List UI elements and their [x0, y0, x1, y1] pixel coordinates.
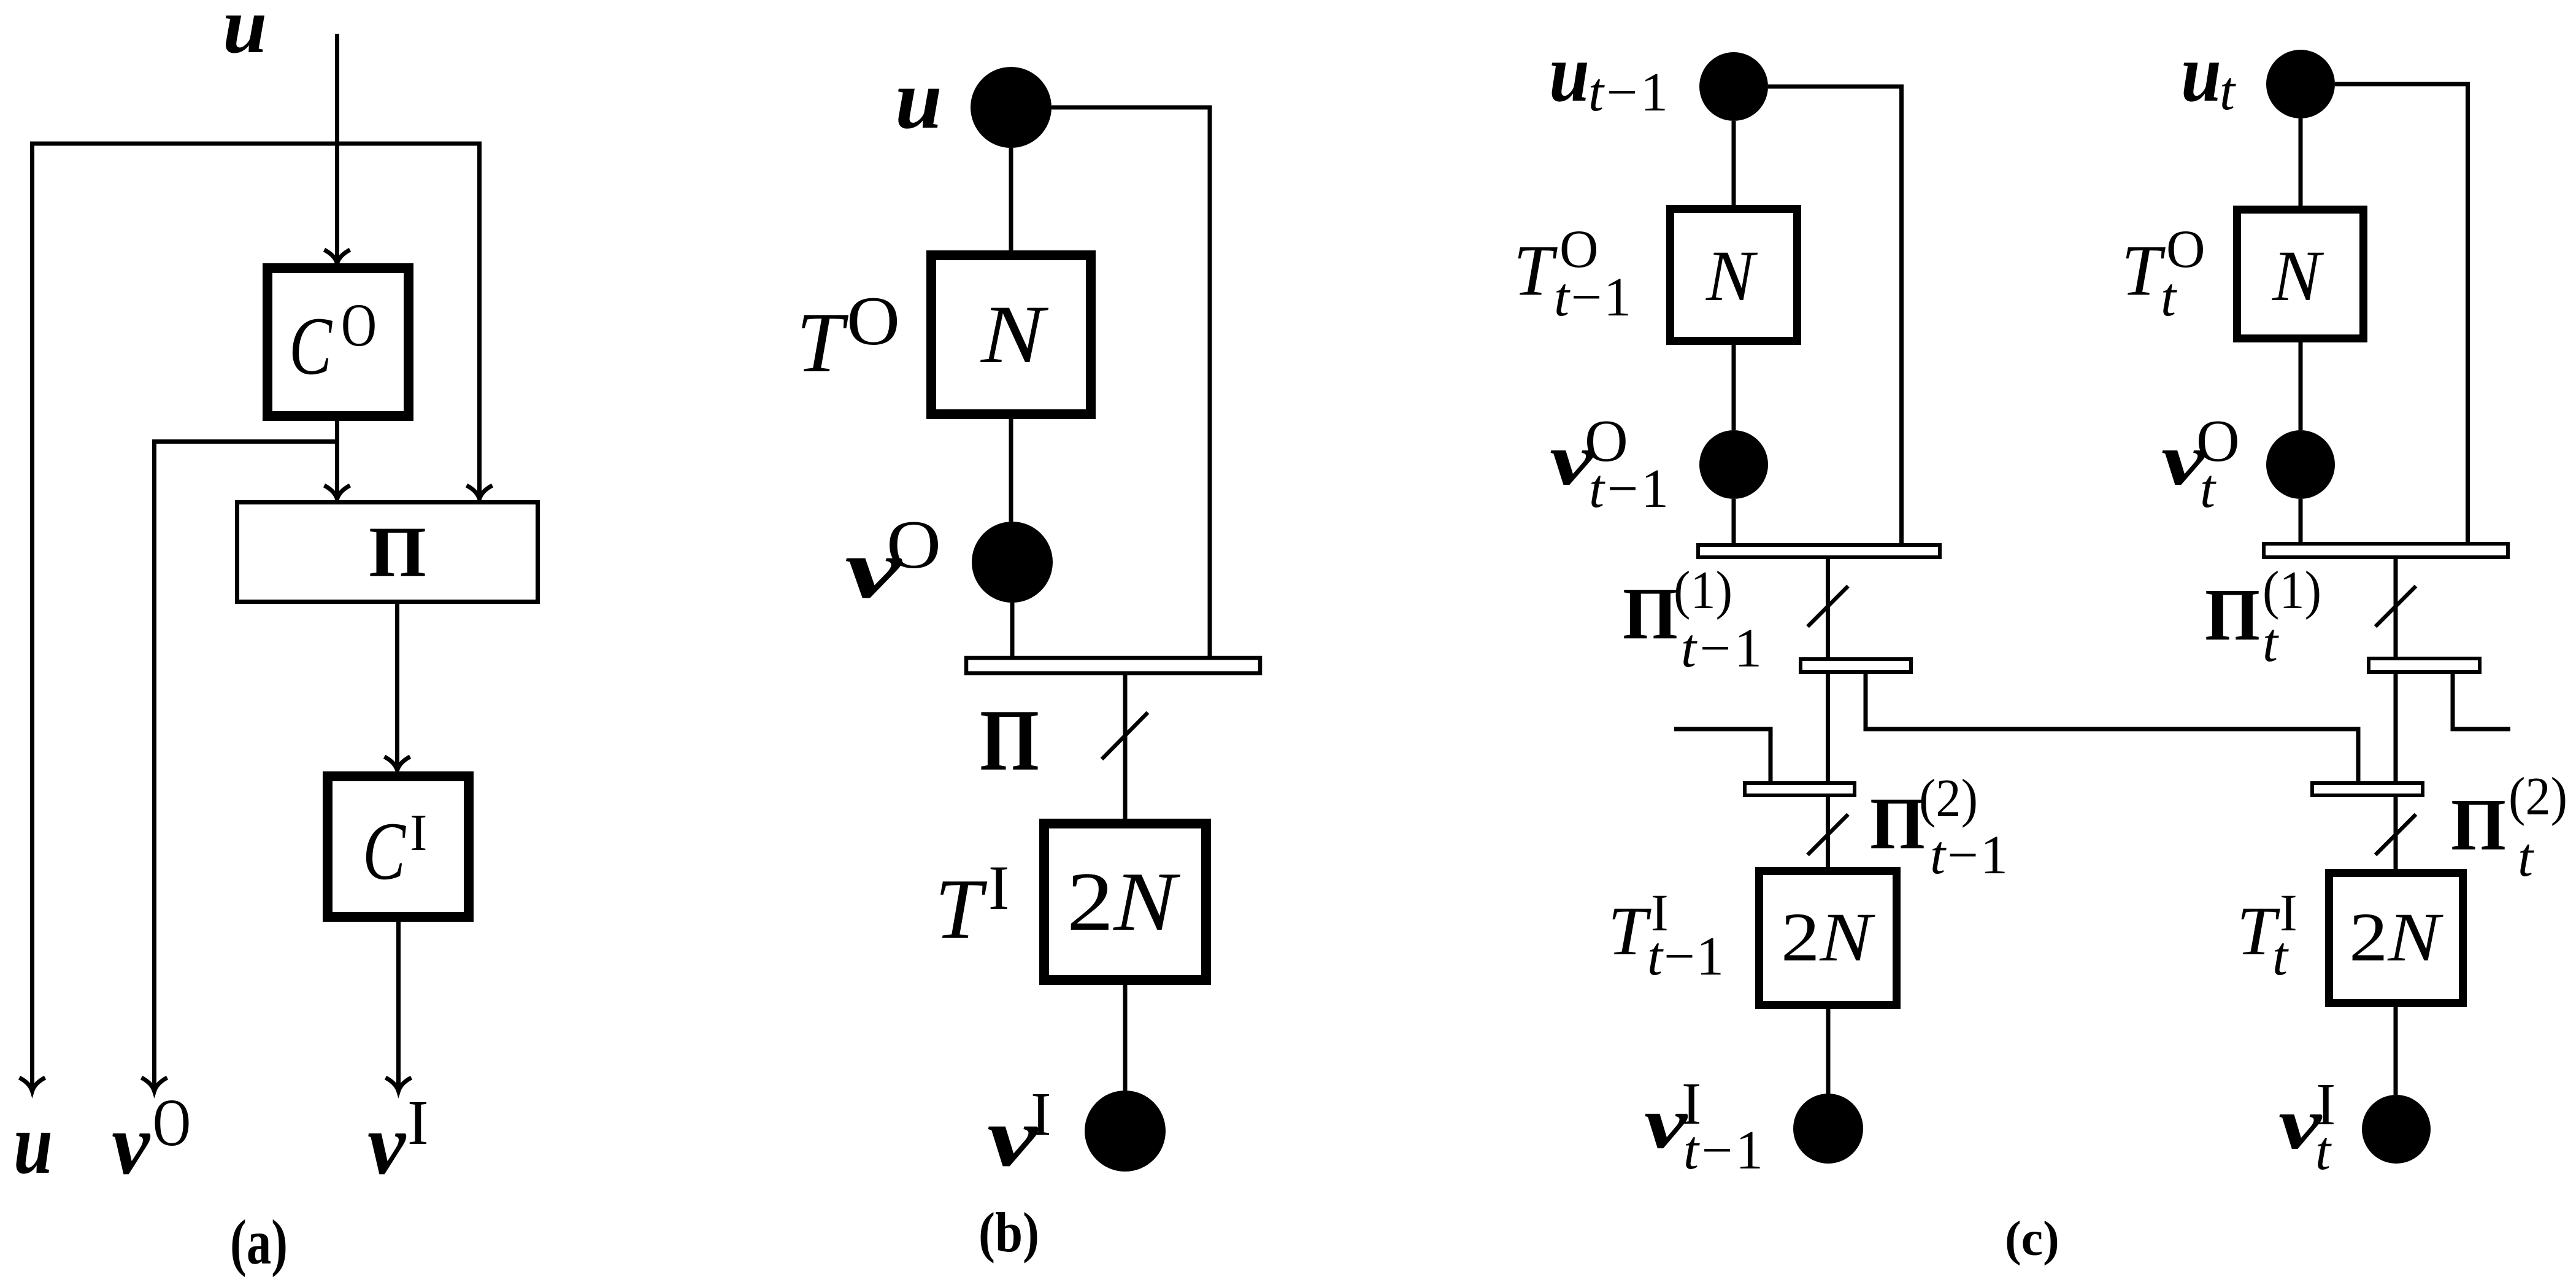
merge bar (c left)	[1745, 783, 1855, 795]
wire vO branch left then down	[155, 442, 337, 1091]
wire split-out to next stage (c left to right)	[1866, 674, 2358, 783]
arrowhead right branch into P	[467, 485, 493, 499]
wire split bar down to merge bar (c right)	[2394, 674, 2398, 783]
svg-text:Π: Π	[1623, 573, 1678, 655]
svg-text:t−1: t−1	[1681, 618, 1762, 679]
arrowhead CO out into P	[325, 485, 350, 499]
interleaver box P (a)	[237, 503, 538, 602]
svg-text:N: N	[980, 289, 1049, 380]
bundle slash 2 (c right)	[2375, 814, 2416, 855]
svg-text:T: T	[2121, 230, 2166, 311]
permutation bar P (b)	[966, 658, 1260, 673]
svg-text:t−1: t−1	[1589, 458, 1669, 519]
svg-text:t: t	[2200, 458, 2217, 519]
wire u_t bypass to P1 bar (c right)	[2335, 84, 2468, 542]
node u_t	[2266, 50, 2335, 118]
wire u_{t-1} to TO	[1732, 121, 1736, 205]
wire TO_{t-1} to vO_{t-1}	[1732, 345, 1736, 430]
svg-text:t: t	[2263, 612, 2279, 673]
wire TI_{t-1} to vI_{t-1}	[1826, 1009, 1831, 1094]
factor box TI_{t-1}	[1759, 871, 1897, 1005]
wire P bar to TI (b)	[1123, 675, 1128, 819]
wire stub from previous stage into merge bar (c left)	[1674, 729, 1771, 783]
wire vO_{t-1} to P1 bar	[1732, 499, 1736, 543]
svg-text:(2): (2)	[2509, 767, 2567, 827]
svg-text:C: C	[289, 301, 333, 392]
arrowhead u output	[20, 1078, 45, 1091]
svg-text:2N: 2N	[1067, 855, 1180, 948]
svg-text:t−1: t−1	[1647, 926, 1724, 987]
svg-text:(c): (c)	[2005, 1212, 2059, 1266]
svg-text:T: T	[1608, 893, 1651, 970]
node vO (b)	[972, 522, 1053, 603]
node u_{t-1}	[1699, 52, 1768, 121]
svg-text:t: t	[2161, 267, 2177, 328]
svg-text:t−1: t−1	[1683, 1120, 1763, 1181]
permutation bar P1_t	[2264, 544, 2508, 557]
svg-text:v: v	[367, 1095, 407, 1192]
svg-text:u: u	[1549, 28, 1590, 119]
factor box TI (b)	[1044, 824, 1206, 980]
node vO_t	[2266, 430, 2335, 499]
merge bar (c right)	[2312, 783, 2423, 795]
split bar (c left)	[1801, 659, 1911, 672]
wire merge bar to TI_{t-1}	[1826, 797, 1830, 867]
arrowhead vI output	[386, 1078, 412, 1091]
node u (b)	[971, 67, 1052, 148]
svg-text:t: t	[2272, 926, 2289, 987]
svg-text:t: t	[2220, 61, 2236, 122]
wire P1 bar to split bar (c left)	[1826, 559, 1830, 657]
svg-text:2N: 2N	[2349, 899, 2443, 976]
svg-text:T: T	[1513, 230, 1558, 311]
wire TO_t to vO_t	[2299, 342, 2303, 430]
svg-text:Π: Π	[980, 692, 1039, 789]
svg-text:v: v	[112, 1095, 151, 1192]
wire split-out stub to next stage (c right)	[2453, 674, 2510, 729]
split bar (c right)	[2369, 658, 2480, 672]
svg-text:Π: Π	[2451, 784, 2506, 866]
wire u branch: left rail and right rail	[33, 144, 480, 1090]
svg-text:(1): (1)	[1674, 561, 1732, 620]
wire TI to vI (b)	[1123, 985, 1128, 1091]
node vI_t	[2362, 1095, 2431, 1164]
svg-text:t−1: t−1	[1588, 62, 1668, 123]
encoder box CI	[328, 776, 469, 917]
wire u to P bypass (b)	[1052, 107, 1210, 656]
svg-text:(2): (2)	[1919, 769, 1978, 828]
svg-text:t−1: t−1	[1554, 267, 1631, 328]
bundle slash (b)	[1102, 712, 1148, 759]
arrowhead into CO	[325, 250, 350, 263]
svg-text:(b): (b)	[978, 1201, 1039, 1264]
wire CI output down	[396, 922, 401, 1090]
svg-text:u: u	[895, 52, 942, 146]
svg-text:I: I	[988, 853, 1009, 923]
arrowhead vO output	[142, 1078, 167, 1091]
node vO_{t-1}	[1699, 430, 1768, 499]
wire TO to vO (b)	[1009, 419, 1013, 522]
svg-text:I: I	[407, 1087, 429, 1158]
svg-text:u: u	[13, 1095, 53, 1192]
svg-text:O: O	[847, 283, 900, 360]
svg-text:(a): (a)	[230, 1207, 288, 1278]
svg-text:u: u	[223, 0, 267, 70]
svg-text:t: t	[2315, 1121, 2332, 1181]
svg-text:u: u	[2181, 28, 2221, 119]
wire vO_t to P1 bar (c right)	[2299, 499, 2303, 542]
node vI_{t-1}	[1793, 1094, 1863, 1164]
bundle slash 2 (c left)	[1808, 814, 1848, 855]
svg-text:C: C	[363, 806, 407, 897]
svg-text:t: t	[2518, 827, 2534, 888]
svg-text:O: O	[153, 1085, 191, 1160]
factor box TO_{t-1}	[1671, 209, 1797, 341]
svg-text:t−1: t−1	[1930, 825, 2008, 886]
wire u_{t-1} bypass to P1 bar	[1768, 87, 1902, 543]
wire split bar down to merge bar (c left)	[1826, 674, 1830, 783]
svg-text:O: O	[341, 291, 377, 359]
encoder box CO	[267, 268, 409, 416]
wire P output down to CI	[395, 604, 399, 769]
bundle slash 1 (c left)	[1808, 586, 1848, 627]
wire u input down to encoder CO	[335, 34, 339, 262]
wire P1 bar to split bar (c right)	[2394, 559, 2398, 657]
bundle slash 1 (c right)	[2375, 586, 2416, 627]
svg-text:T: T	[935, 862, 988, 957]
wire merge bar to TI_t	[2394, 797, 2398, 869]
svg-text:Π: Π	[369, 512, 426, 592]
svg-text:N: N	[2272, 236, 2324, 316]
svg-text:N: N	[1705, 236, 1758, 316]
node vI (b)	[1085, 1091, 1166, 1172]
wire u_t to TO_t	[2299, 118, 2303, 206]
wire CO output down to P	[335, 421, 339, 498]
arrowhead into CI	[385, 757, 410, 770]
wire u to TO (b)	[1009, 148, 1013, 250]
wire vO to P bar (b)	[1010, 603, 1015, 656]
svg-text:T: T	[796, 295, 849, 390]
svg-text:O: O	[886, 507, 941, 583]
factor box TO (b)	[931, 255, 1091, 414]
svg-text:(1): (1)	[2263, 561, 2321, 620]
svg-text:2N: 2N	[1781, 899, 1875, 976]
factor box TO_t	[2237, 210, 2364, 339]
wire TI_t to vI_t	[2394, 1007, 2398, 1095]
svg-text:I: I	[1031, 1079, 1052, 1148]
permutation bar P1_{t-1}	[1698, 545, 1940, 557]
svg-text:I: I	[410, 804, 427, 862]
svg-text:Π: Π	[1870, 782, 1925, 865]
svg-text:Π: Π	[2205, 574, 2260, 656]
factor box TI_t	[2329, 873, 2463, 1003]
